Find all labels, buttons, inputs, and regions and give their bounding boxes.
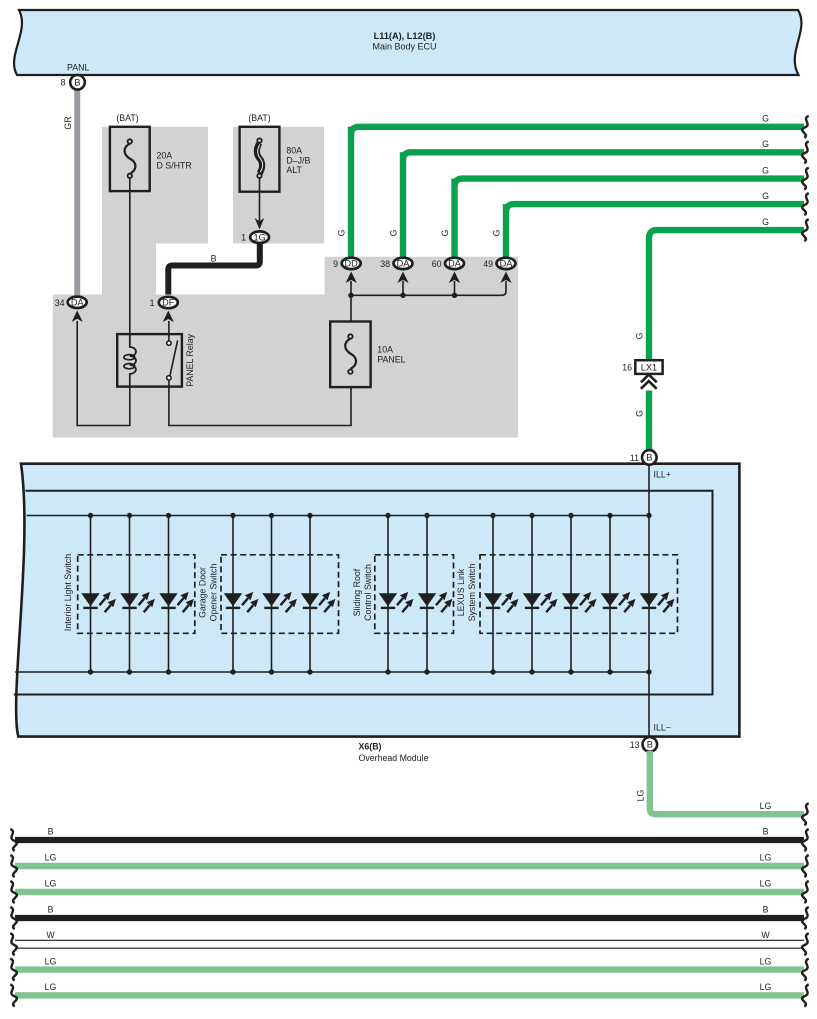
svg-text:B: B — [211, 254, 217, 264]
wire GR gray from pin 8 to connector 34 DA — [74, 88, 80, 297]
connector 60 (DA) — [432, 258, 464, 270]
LED D12 — [601, 592, 636, 612]
labels LG wire8 — [45, 982, 772, 992]
svg-text:DA: DA — [397, 259, 411, 269]
svg-text:G: G — [634, 332, 644, 339]
arrow into DA34 — [72, 310, 83, 322]
svg-text:(BAT): (BAT) — [116, 113, 138, 123]
svg-text:G: G — [762, 114, 769, 124]
wire LG4 horizontal — [15, 889, 804, 895]
svg-text:W: W — [46, 930, 55, 940]
svg-text:10A: 10A — [377, 345, 393, 355]
torn ends of wire LG3 — [10, 855, 808, 877]
svg-text:G: G — [388, 229, 398, 236]
pin 8 (B) PANL of ECU — [61, 63, 90, 90]
arrow into DF — [163, 311, 174, 323]
svg-text:G: G — [440, 229, 450, 236]
svg-text:LG: LG — [760, 879, 772, 889]
svg-text:B: B — [74, 77, 80, 87]
svg-text:49: 49 — [483, 259, 493, 269]
svg-text:80A: 80A — [286, 145, 302, 155]
torn ends of wire W6 — [10, 933, 808, 955]
svg-text:B: B — [763, 905, 769, 915]
bottom bus inside module — [15, 671, 649, 673]
svg-text:W: W — [761, 930, 770, 940]
svg-text:LG: LG — [760, 853, 772, 863]
svg-text:DD: DD — [345, 259, 359, 269]
LED D9 — [484, 592, 519, 612]
torn end of wire G2 — [802, 141, 809, 163]
svg-text:B: B — [647, 740, 653, 750]
dashed box interior light switch — [78, 555, 195, 634]
connector 1 (1G) — [241, 231, 269, 243]
svg-text:ILL+: ILL+ — [654, 470, 671, 480]
svg-text:(BAT): (BAT) — [248, 113, 270, 123]
torn end of wire LG1 — [802, 803, 809, 825]
labels LG wire4 — [45, 879, 772, 889]
pin 11 (B) of overhead module — [630, 450, 657, 465]
arrow into DD9 — [346, 272, 357, 284]
pin 13 (B) of overhead module — [630, 737, 657, 752]
svg-text:9: 9 — [333, 259, 338, 269]
svg-text:G: G — [634, 410, 644, 417]
svg-text:11: 11 — [630, 453, 639, 463]
fuse 80A D-J/B ALT — [240, 113, 311, 192]
svg-text:38: 38 — [380, 259, 390, 269]
torn end of wire G4 — [802, 193, 809, 215]
svg-text:G: G — [491, 229, 501, 236]
svg-text:13: 13 — [630, 740, 640, 750]
torn end of wire G3 — [802, 168, 809, 190]
svg-text:DA: DA — [448, 259, 462, 269]
torn ends of wire B5 — [10, 907, 808, 929]
label Garage Door Opener Switch — [198, 564, 219, 622]
svg-text:60: 60 — [432, 259, 442, 269]
svg-text:G: G — [762, 165, 769, 175]
wire fuse 20A down to relay coil — [129, 178, 131, 344]
LED D2 — [120, 592, 155, 612]
svg-text:1G: 1G — [253, 232, 265, 242]
wire DF to relay contact and contact to fuse 10A — [169, 321, 351, 426]
connector 1 (DF) — [150, 297, 178, 308]
connector 16 (LX1) — [622, 360, 662, 374]
svg-text:G: G — [762, 217, 769, 227]
svg-text:34: 34 — [55, 298, 65, 308]
LED D3 — [159, 592, 194, 612]
dashed box sliding roof control switch — [375, 555, 454, 634]
fuse 10A PANEL — [330, 322, 405, 388]
LED D4 — [224, 592, 259, 612]
svg-text:1: 1 — [150, 298, 155, 308]
svg-text:LX1: LX1 — [641, 362, 657, 372]
wire W6 white horizontal — [15, 940, 804, 948]
junction block internal shading (gray) — [53, 127, 518, 438]
LED branch wires inside module — [91, 516, 650, 673]
svg-text:DA: DA — [500, 259, 514, 269]
svg-text:PANEL Relay: PANEL Relay — [185, 333, 195, 386]
junction dots on bottom bus — [88, 669, 652, 674]
wire ILL- out of module — [648, 672, 650, 738]
svg-text:PANEL: PANEL — [377, 355, 405, 365]
LED D7 — [379, 592, 414, 612]
top bus inside module — [27, 515, 650, 517]
wire LG7 horizontal — [15, 966, 804, 972]
fuse 20A D S/HTR — [110, 113, 192, 191]
svg-text:L11(A), L12(B): L11(A), L12(B) — [374, 31, 436, 41]
labels LG wire3 — [45, 853, 772, 863]
svg-text:D–J/B: D–J/B — [286, 155, 310, 165]
svg-text:LG: LG — [45, 956, 57, 966]
torn ends of wire LG7 — [10, 959, 808, 981]
LED D8 — [418, 592, 453, 612]
svg-text:B: B — [646, 453, 652, 463]
svg-text:DF: DF — [162, 298, 175, 308]
svg-text:D S/HTR: D S/HTR — [157, 161, 192, 171]
LED D5 — [262, 592, 297, 612]
wire fuse 80A to connector 1G with down arrow — [255, 178, 265, 230]
LED D6 — [301, 592, 336, 612]
svg-text:ILL−: ILL− — [654, 723, 671, 733]
arrow into DA38 — [397, 272, 408, 284]
LED D10 — [523, 592, 558, 612]
svg-text:Control Switch: Control Switch — [363, 564, 373, 621]
torn ends of wire B2 — [10, 829, 808, 851]
svg-text:GR: GR — [63, 116, 73, 129]
svg-text:LG: LG — [760, 982, 772, 992]
svg-text:G: G — [762, 139, 769, 149]
LED D11 — [562, 592, 597, 612]
svg-text:Opener Switch: Opener Switch — [209, 564, 219, 622]
label LEXUS Link System Switch — [456, 564, 477, 622]
wire LG8 horizontal — [15, 992, 804, 998]
ECU box L11(A), L12(B) Main Body ECU — [14, 10, 801, 75]
wire G4 green from DA49 to right torn end — [503, 204, 509, 256]
svg-text:Sliding Roof: Sliding Roof — [352, 568, 362, 616]
dashed box LEXUS link system switch — [480, 555, 678, 634]
LED D1 — [81, 592, 116, 612]
wire LG from pin 13 to right torn end — [650, 751, 804, 814]
labels LG wire7 — [45, 956, 772, 966]
svg-text:B: B — [48, 905, 54, 915]
double chevron below LX1 — [641, 375, 657, 389]
relay PANEL Relay — [117, 334, 182, 387]
svg-text:G: G — [762, 191, 769, 201]
connector 38 (DA) — [380, 258, 412, 270]
svg-text:Garage Door: Garage Door — [198, 567, 208, 618]
labels B wire5 — [48, 905, 769, 915]
svg-text:LG: LG — [45, 982, 57, 992]
svg-text:1: 1 — [241, 232, 246, 242]
torn ends of wire LG8 — [10, 984, 808, 1006]
wire G5 green from right torn end down to LX1 — [649, 230, 804, 360]
svg-text:B: B — [48, 827, 54, 837]
labels B wire2 — [48, 827, 769, 837]
svg-text:LG: LG — [45, 853, 57, 863]
svg-text:PANL: PANL — [67, 63, 89, 73]
label X6(B) Overhead Module — [359, 742, 429, 763]
torn end of wire G5 — [802, 219, 809, 241]
wire bus joining connectors DD9 DA38 DA60 DA49 to fuse 10A — [348, 281, 506, 322]
svg-text:8: 8 — [61, 78, 66, 88]
torn end of wire G1 — [802, 116, 809, 138]
wire G3 green from DA60 to right torn end — [451, 179, 457, 257]
wire B5 black horizontal — [15, 915, 804, 921]
svg-text:LG: LG — [760, 956, 772, 966]
wire relay coil return to connector DA34 — [77, 321, 130, 426]
svg-text:LG: LG — [45, 879, 57, 889]
arrow into DA60 — [449, 272, 460, 284]
svg-text:ALT: ALT — [286, 165, 302, 175]
torn ends of wire LG4 — [10, 881, 808, 903]
label Sliding Roof Control Switch — [352, 564, 373, 621]
wire B thick black from 1G to DF — [168, 244, 259, 295]
svg-text:B: B — [763, 827, 769, 837]
wire LG3 horizontal — [15, 863, 804, 869]
arrow into DA49 — [500, 272, 511, 284]
svg-text:System Switch: System Switch — [467, 564, 477, 622]
junction dots on top bus — [88, 513, 652, 518]
svg-text:LG: LG — [760, 801, 772, 811]
svg-text:20A: 20A — [157, 151, 173, 161]
svg-text:G: G — [336, 229, 346, 236]
svg-text:16: 16 — [622, 363, 632, 373]
wire G2 green from DA38 to right torn end — [400, 152, 406, 256]
connector 9 (DD) — [333, 258, 361, 270]
svg-text:LG: LG — [635, 789, 645, 801]
overhead module box X6(B) — [14, 464, 740, 737]
svg-text:Main Body ECU: Main Body ECU — [372, 42, 436, 52]
LED D13 — [640, 592, 675, 612]
wire G1 green from DD9 to right torn end — [348, 127, 354, 257]
svg-text:X6(B): X6(B) — [359, 742, 382, 752]
svg-text:Interior Light Switch: Interior Light Switch — [63, 554, 73, 631]
connector 49 (DA) — [483, 258, 515, 270]
wire B2 black horizontal — [15, 837, 804, 843]
wire G green from LX1 to pin 11 (B) — [646, 391, 652, 451]
wire ILL+ into module — [648, 463, 650, 516]
dashed box garage door opener switch — [221, 555, 339, 634]
svg-text:Overhead Module: Overhead Module — [359, 753, 429, 763]
svg-text:DA: DA — [71, 298, 85, 308]
svg-text:LEXUS Link: LEXUS Link — [456, 568, 466, 616]
connector 34 (DA) — [55, 297, 87, 309]
labels W wire6 — [46, 930, 770, 940]
